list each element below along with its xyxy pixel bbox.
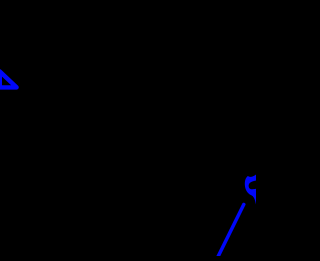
set-square triangle icon (clipped at left edge) <box>0 72 17 88</box>
compass left leg line <box>217 204 243 258</box>
compass head loop (clipped at right edge) <box>245 175 256 205</box>
